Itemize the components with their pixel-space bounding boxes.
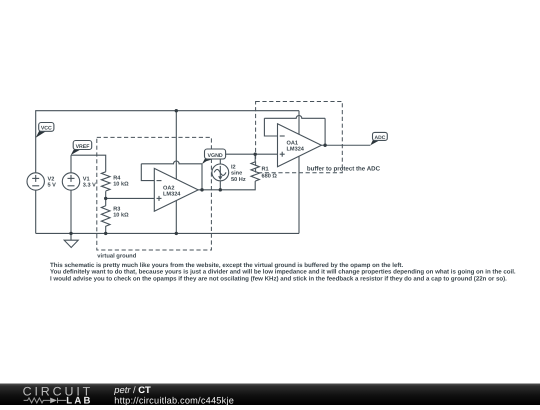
svg-text:50 Hz: 50 Hz bbox=[231, 177, 246, 183]
svg-text:I would advise you to check on: I would advise you to check on the opamp… bbox=[50, 275, 507, 282]
wire V1 top to VREF node bbox=[70, 155, 72, 173]
wire VGND node down to OA2 output bbox=[201, 164, 203, 190]
svg-text:sine: sine bbox=[231, 170, 242, 177]
svg-text:10 kΩ: 10 kΩ bbox=[113, 181, 129, 188]
dashed box ADC buffer group bbox=[256, 102, 343, 173]
flag VCC bbox=[36, 123, 54, 138]
wire R3 bottom bbox=[105, 226, 107, 233]
svg-text:680 Ω: 680 Ω bbox=[262, 174, 278, 180]
resistor R1 bbox=[251, 162, 259, 181]
svg-text:ADC: ADC bbox=[374, 135, 385, 141]
op-amp OA2 bbox=[154, 168, 198, 211]
svg-text:3.3 V: 3.3 V bbox=[83, 183, 96, 189]
wire OA2 output to R1 bottom bbox=[198, 181, 255, 190]
wire OA1 output node down bbox=[324, 118, 326, 145]
wire OA2 minus input stub bbox=[141, 164, 154, 181]
resistor R3 bbox=[101, 206, 110, 226]
junction R1 top bbox=[254, 153, 257, 156]
junction R4-R3 divider node bbox=[104, 197, 107, 200]
svg-text:virtual ground: virtual ground bbox=[97, 253, 136, 260]
wire divider node to OA2 plus input bbox=[106, 197, 155, 199]
label I2 sine 50 Hz bbox=[231, 164, 246, 183]
flag ADC bbox=[370, 132, 387, 145]
svg-text:VREF: VREF bbox=[76, 144, 90, 150]
label R3 10 kOhm bbox=[113, 207, 129, 219]
svg-text:VCC: VCC bbox=[41, 126, 52, 132]
wire OA1 output to ADC bbox=[321, 144, 370, 146]
label R4 10 kOhm bbox=[113, 176, 129, 188]
junction ground rail / V1 bbox=[69, 232, 72, 235]
wire VREF node to R4 top bbox=[71, 155, 106, 172]
wire I2 bottom bbox=[219, 181, 221, 190]
svg-text:10 kΩ: 10 kΩ bbox=[113, 212, 129, 219]
wire OA2 V- supply pin bbox=[175, 201, 177, 234]
footer bar bbox=[0, 384, 540, 406]
label V1 3.3 V bbox=[83, 176, 96, 188]
wire OA2 feedback with hop bbox=[141, 161, 202, 164]
svg-text:http://circuitlab.com/c445kje: http://circuitlab.com/c445kje bbox=[114, 395, 234, 405]
junction top rail / OA2 V+ bbox=[175, 109, 178, 112]
junction I2 bottom bbox=[219, 188, 222, 191]
wire OA1 V+ supply pin bbox=[298, 111, 300, 135]
svg-text:5 V: 5 V bbox=[48, 183, 57, 189]
svg-text:V2: V2 bbox=[48, 176, 55, 182]
label OA2 LM324 bbox=[163, 185, 181, 197]
svg-text:VGND: VGND bbox=[207, 153, 222, 159]
label V2 5 V bbox=[48, 176, 57, 188]
junction ground rail / R3 bbox=[104, 232, 107, 235]
junction OA1 output node bbox=[323, 144, 326, 147]
wire V1 bottom bbox=[70, 190, 72, 233]
wire OA1 V- supply pin bbox=[298, 157, 300, 234]
junction OA2 output node bbox=[200, 188, 203, 191]
junction ground rail / OA2 V- bbox=[175, 232, 178, 235]
flag VGND bbox=[202, 149, 226, 164]
resistor R4 bbox=[101, 172, 110, 191]
svg-text:OA1: OA1 bbox=[287, 140, 299, 146]
voltage source V1 bbox=[62, 173, 79, 190]
wire OA2 V+ supply pin bbox=[175, 111, 177, 180]
logo resistor-diode glyph bbox=[24, 398, 67, 404]
wire V2 bottom to ground rail bbox=[35, 190, 37, 233]
wire VCC rail vertical + top supply rail bbox=[36, 111, 299, 173]
voltage source V2 bbox=[27, 173, 44, 190]
op-amp OA1 bbox=[278, 124, 322, 167]
label OA1 LM324 bbox=[287, 140, 305, 152]
svg-text:petr / CT: petr / CT bbox=[113, 384, 151, 395]
svg-text:V1: V1 bbox=[83, 176, 90, 182]
svg-text:LAB: LAB bbox=[66, 396, 92, 405]
ground bbox=[64, 233, 78, 247]
svg-text:R4: R4 bbox=[113, 176, 121, 182]
svg-text:buffer to protect the ADC: buffer to protect the ADC bbox=[307, 166, 381, 173]
current source I2 bbox=[212, 164, 229, 181]
svg-text:LM324: LM324 bbox=[163, 191, 181, 197]
wire R4 to R3 bbox=[105, 191, 107, 206]
wire R1 top bbox=[254, 154, 256, 162]
svg-text:LM324: LM324 bbox=[287, 147, 305, 153]
wire VGND flag to OA1 plus input bbox=[226, 153, 278, 155]
wire I2 top bbox=[219, 159, 221, 164]
wire OA1 minus input stub bbox=[264, 118, 277, 136]
label R1 680 Ohm bbox=[262, 166, 278, 179]
wire bottom ground rail bbox=[36, 232, 299, 234]
flag VREF bbox=[71, 141, 92, 156]
svg-text:I2: I2 bbox=[231, 164, 236, 170]
dashed box virtual ground group bbox=[97, 137, 212, 250]
wire OA1 feedback with hop bbox=[264, 116, 325, 119]
svg-text:R1: R1 bbox=[262, 166, 269, 172]
